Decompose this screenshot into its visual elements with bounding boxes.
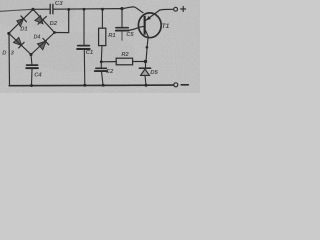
capacitor C3: [50, 1, 63, 14]
diode D1: [17, 16, 28, 33]
wire bridge edge L-B: [9, 33, 31, 54]
wire bridge edge B-R: [31, 33, 55, 55]
wire bridge edge T-R: [33, 9, 55, 32]
svg-text:R1: R1: [108, 33, 115, 39]
node rail junction a: [67, 8, 70, 11]
diode D5: [139, 62, 158, 86]
node collector blob: [146, 46, 149, 49]
wire R2 to collector node: [133, 61, 146, 63]
node bridge left junction: [7, 32, 10, 35]
svg-text:C4: C4: [34, 73, 42, 79]
svg-text:D5: D5: [150, 70, 158, 76]
wire bridge edge L-T: [9, 9, 33, 33]
wire bridge top to C3: [33, 8, 50, 10]
svg-text:D2: D2: [50, 21, 58, 27]
wire top rail: [54, 8, 122, 11]
node R1 R2 C2 junction: [100, 60, 103, 63]
wire rail over transistor to plus terminal: [122, 7, 143, 13]
capacitor C1: [77, 9, 93, 85]
node rail junction c: [101, 8, 104, 11]
diode D4: [34, 35, 49, 50]
wire R1 node to R2: [101, 61, 116, 63]
node rail junction b: [83, 8, 86, 11]
svg-text:C2: C2: [106, 69, 114, 75]
svg-text:C1: C1: [86, 50, 94, 56]
capacitor C5: [116, 9, 134, 41]
node bridge right junction: [53, 31, 56, 34]
node rail junction d: [120, 7, 123, 10]
resistor R2: [116, 52, 132, 65]
terminal plus: [174, 7, 186, 12]
node bottom junction D5: [145, 84, 148, 87]
node bridge top junction: [31, 8, 34, 11]
node bottom junction C4: [30, 84, 33, 87]
wire bottom rail: [9, 84, 174, 87]
node bottom junction C1: [83, 84, 86, 87]
svg-text:D1: D1: [20, 27, 27, 33]
wire base from C5 to transistor: [128, 26, 144, 30]
wire bridge right corner to top rail: [55, 9, 69, 32]
svg-text:R2: R2: [121, 52, 129, 58]
svg-text:C5: C5: [126, 32, 134, 38]
node collector R2 D5 junction: [144, 60, 147, 63]
svg-text:C3: C3: [55, 1, 63, 7]
svg-text:T1: T1: [162, 23, 170, 30]
terminal minus: [174, 83, 189, 87]
transistor T1: [138, 10, 169, 61]
capacitor C4: [26, 55, 42, 86]
wire input from left edge to bridge top: [0, 9, 33, 11]
resistor R1: [99, 9, 116, 61]
node bottom junction C2: [102, 84, 105, 87]
diode D2: [35, 16, 58, 27]
node bridge bottom junction: [29, 53, 32, 56]
wire left vertical bridge to bottom rail: [8, 34, 11, 86]
capacitor C2: [95, 62, 114, 85]
svg-text:D4: D4: [34, 35, 41, 41]
diode D3: [2, 37, 24, 56]
wire emitter to plus terminal: [160, 8, 174, 11]
